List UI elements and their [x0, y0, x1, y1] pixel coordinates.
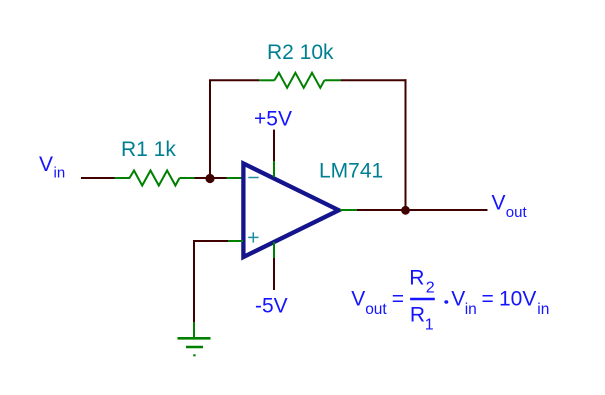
wire: +5V supply to op-amp: [273, 130, 275, 177]
svg-text:R: R: [410, 303, 425, 326]
svg-text:=: =: [392, 288, 404, 311]
ground: [178, 338, 211, 355]
label Vout: [492, 192, 528, 222]
svg-text:V: V: [451, 288, 465, 311]
label -5V: [255, 295, 288, 318]
wire: feedback top left segment: [209, 79, 275, 81]
svg-text:+5V: +5V: [254, 108, 292, 131]
svg-text:2: 2: [426, 279, 435, 296]
resistor R1: [130, 171, 180, 186]
wire: non-inverting input horizontal: [193, 240, 243, 242]
op-amp U1 triangle: [243, 164, 338, 258]
wire: R1 to inverting input node: [180, 177, 244, 179]
svg-text:1: 1: [425, 316, 434, 333]
formula: Vout = R2/R1 * Vin = 10Vin: [351, 267, 549, 334]
label Vin: [39, 153, 65, 182]
svg-text:V: V: [492, 192, 506, 215]
pin: inverting input minus sign: [248, 177, 258, 179]
svg-text:out: out: [365, 301, 387, 318]
svg-text:V: V: [39, 153, 53, 176]
wire: ground vertical: [193, 240, 195, 338]
svg-text:-5V: -5V: [255, 295, 288, 318]
wire: feedback top right segment: [324, 79, 406, 81]
label R2 10k: [267, 41, 334, 64]
svg-text:R: R: [409, 267, 424, 290]
label R1 1k: [121, 138, 176, 161]
svg-text:in: in: [54, 165, 66, 182]
wire: feedback vertical left: [209, 80, 211, 179]
svg-text:in: in: [537, 301, 549, 318]
label LM741: [319, 159, 383, 182]
label +5V: [254, 108, 292, 131]
svg-text:in: in: [465, 301, 477, 318]
svg-text:=: =: [482, 288, 494, 311]
wire: Vin input lead: [81, 177, 130, 179]
wire: -5V supply to op-amp: [273, 242, 275, 290]
svg-text:out: out: [506, 204, 528, 221]
wire: output lead: [340, 209, 488, 211]
svg-text:R1 1k: R1 1k: [121, 138, 176, 161]
svg-text:V: V: [351, 288, 365, 311]
resistor R2: [274, 73, 324, 88]
svg-text:R2 10k: R2 10k: [267, 41, 334, 64]
node A: junction dot at inverting input: [205, 174, 214, 183]
wire: feedback vertical right: [405, 79, 407, 210]
pin: non-inverting input plus sign: [248, 232, 258, 242]
svg-text:10V: 10V: [499, 288, 536, 311]
node B: junction dot at output: [401, 206, 410, 215]
svg-text:LM741: LM741: [319, 159, 383, 182]
